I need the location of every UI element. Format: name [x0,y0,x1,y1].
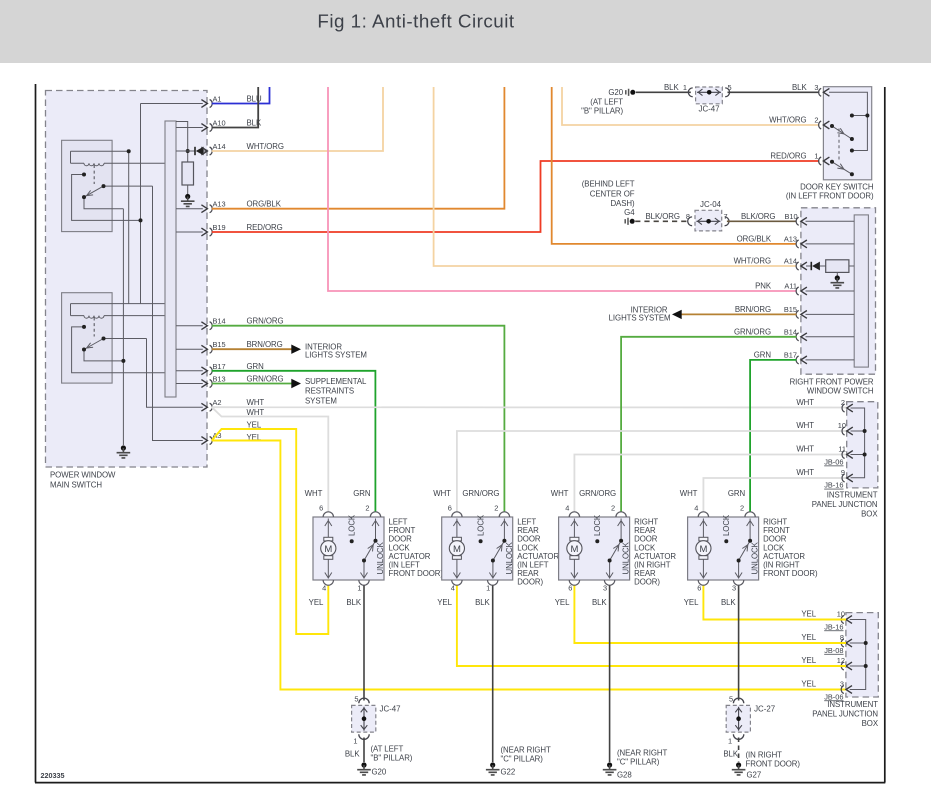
svg-text:4: 4 [565,504,569,513]
actuator 1 lock/unlock switch [348,514,385,578]
wire YEL left rear actuator pin 4 to junction box pin 12 [457,586,846,667]
svg-text:BLK: BLK [792,83,807,92]
power window main switch (dashed box) [46,91,208,490]
wire WHT branch to left front actuator pin 6 [212,407,328,511]
actuator 4 terminal 4 [680,489,709,517]
wire WHT/ORG to door key switch pin 2 [562,87,819,125]
svg-text:1: 1 [814,152,818,161]
wire BRN/ORG right switch B15 to interior lights arrow [682,313,797,315]
terminal B15 [201,340,282,353]
wire B13 GRN/ORG to supplemental restraints arrow [212,383,292,385]
svg-text:GRN: GRN [353,489,371,498]
svg-text:BLK: BLK [475,598,490,607]
svg-text:G28: G28 [617,771,632,780]
relay 2 actuation dashed link [93,318,95,337]
svg-text:6: 6 [568,584,572,593]
wire YEL branch to left front actuator pin 4 [212,429,328,634]
right front door lock actuator [680,489,818,607]
svg-text:4: 4 [694,504,698,513]
svg-text:RED/ORG: RED/ORG [770,152,806,161]
actuator 2 terminal 2 [462,489,509,517]
svg-text:3: 3 [840,680,844,689]
svg-text:FRONT DOOR): FRONT DOOR) [389,569,444,578]
svg-text:BLK: BLK [721,598,736,607]
right switch terminal A14 [734,257,807,270]
svg-text:LOCK: LOCK [722,514,731,536]
wire BLK/ORG JC-04 to right switch B10 [727,220,797,222]
svg-text:BOX: BOX [862,719,879,728]
svg-text:WHT: WHT [305,489,323,498]
junction box 2 terminal 12 [801,656,852,670]
relay 2 switch contacts [72,327,165,373]
svg-text:RESTRAINTS: RESTRAINTS [305,387,354,396]
svg-text:BLK: BLK [664,83,679,92]
svg-text:"C" PILLAR): "C" PILLAR) [501,755,544,764]
svg-text:"B" PILLAR): "B" PILLAR) [371,754,413,763]
svg-text:GRN/ORG: GRN/ORG [247,317,284,326]
right front power window switch (dashed box) [790,208,876,396]
wire B14 GRN/ORG to left rear actuator pin 2 [212,326,505,512]
wire BLK JC-47 to door key switch pin 3 [728,91,820,93]
svg-text:BLK: BLK [345,750,360,759]
right rear door lock actuator [551,489,677,607]
svg-text:WHT: WHT [796,445,814,454]
svg-text:B13: B13 [213,375,226,384]
wire vertical V1 [128,151,130,303]
svg-text:ORG/BLK: ORG/BLK [737,235,772,244]
svg-text:WHT: WHT [796,398,814,407]
wire vertical V5 to internal ground [122,209,124,445]
svg-text:JC-47: JC-47 [380,705,401,714]
terminal B19 [201,223,282,236]
wire BLK/ORG dashed G4 to JC-04 [635,220,690,222]
svg-text:1: 1 [353,737,357,746]
ground G20 at B pillar (top) [581,88,635,116]
terminal A3 [201,431,261,445]
svg-text:LOCK: LOCK [593,514,602,536]
internal wiring verticals of main switch [123,104,202,446]
actuator 2 lock/unlock switch [477,514,514,578]
svg-text:M: M [570,544,578,555]
svg-text:JB-16: JB-16 [824,622,843,631]
svg-text:GRN: GRN [247,362,265,371]
svg-text:YEL: YEL [801,656,816,665]
resistor ground [181,194,195,207]
svg-text:JC-04: JC-04 [700,200,722,209]
door key switch internals [829,92,867,174]
svg-text:(NEAR RIGHT: (NEAR RIGHT [501,746,551,755]
main switch terminal stubs [141,104,207,384]
svg-text:2: 2 [365,504,369,513]
svg-text:B15: B15 [784,305,797,314]
terminal A2 [201,398,264,411]
wire PNK to right switch A11 [328,87,797,291]
svg-text:UNLOCK: UNLOCK [505,541,514,574]
connector JC-27 [726,695,775,746]
svg-text:1: 1 [486,584,490,593]
svg-text:BOX: BOX [861,510,878,519]
actuator 3 terminal 3 [592,580,615,607]
svg-text:5: 5 [728,83,732,92]
svg-text:CENTER OF: CENTER OF [590,189,635,198]
svg-text:GRN: GRN [728,489,746,498]
svg-text:2: 2 [611,504,615,513]
actuator 4 motor M [696,519,711,579]
svg-text:UNLOCK: UNLOCK [376,541,385,574]
relay 1 actuation dashed link [93,165,95,184]
ground G22 [486,746,551,777]
right switch terminal B10 [796,217,807,225]
svg-text:YEL: YEL [801,633,816,642]
actuator 3 terminal 4 [551,489,580,517]
svg-text:2: 2 [814,116,818,125]
actuator 4 terminal 3 [721,580,744,607]
svg-text:JC-47: JC-47 [699,105,720,114]
actuator 2 terminal 6 [433,489,462,517]
diagram frame border [35,84,885,783]
svg-text:GRN/ORG: GRN/ORG [579,489,616,498]
svg-text:DOOR): DOOR) [634,578,660,587]
svg-text:BLK/ORG: BLK/ORG [646,212,680,221]
svg-text:BLK: BLK [346,598,361,607]
svg-text:LIGHTS SYSTEM: LIGHTS SYSTEM [609,314,671,323]
svg-text:RED/ORG: RED/ORG [247,223,283,232]
wire BLK G20 to JC-47 [636,91,691,93]
svg-text:4: 4 [322,584,326,593]
arrow interior lights system right [609,306,682,323]
svg-text:A10: A10 [213,119,226,128]
svg-text:3: 3 [603,584,607,593]
svg-text:1: 1 [357,584,361,593]
svg-text:WINDOW SWITCH: WINDOW SWITCH [807,387,874,396]
right switch terminal A11 [755,282,807,295]
wire A2 WHT to junction box pin 2 [212,406,847,408]
junction box 1 internal bus [851,408,865,478]
svg-text:B17: B17 [213,362,226,371]
svg-text:SUPPLEMENTAL: SUPPLEMENTAL [305,377,367,386]
relay 1 switch contacts [72,175,153,221]
right switch terminal B15 [735,305,807,318]
svg-text:BRN/ORG: BRN/ORG [247,340,283,349]
right switch internal ground [831,275,845,288]
actuator 1 terminal 2 [353,489,380,517]
svg-text:5: 5 [354,695,358,704]
svg-text:WHT: WHT [551,489,569,498]
svg-text:M: M [453,544,461,555]
svg-text:6: 6 [697,584,701,593]
instrument panel junction box 2 (dashed box) [812,613,879,728]
svg-text:G22: G22 [501,768,516,777]
svg-text:(AT LEFT: (AT LEFT [590,98,623,107]
wire A1 BLU [212,87,270,104]
svg-text:UNLOCK: UNLOCK [751,541,760,574]
svg-text:GRN/ORG: GRN/ORG [247,375,284,384]
header title bar [0,0,931,63]
wire vertical V3 to A3 [153,186,203,440]
internal diode at A14 [176,147,204,156]
junction box 1 terminal 2 [796,398,852,412]
junction box 1 terminal 9 [796,468,852,490]
actuator 4 lock/unlock switch [722,514,759,578]
svg-text:WHT: WHT [433,489,451,498]
junction box 2 internal bus [850,620,866,690]
svg-text:10: 10 [837,610,845,619]
terminal B13 [201,375,283,388]
svg-text:B14: B14 [784,328,797,337]
wire GRN right switch B17 to right front actuator pin 2 [750,360,796,512]
svg-text:9: 9 [841,468,845,477]
svg-text:G27: G27 [747,771,762,780]
svg-text:220335: 220335 [41,771,65,780]
svg-text:(NEAR RIGHT: (NEAR RIGHT [617,749,667,758]
right switch internal diode and resistor at A14 [806,260,854,288]
svg-text:BLU: BLU [247,95,262,104]
svg-text:A14: A14 [784,257,797,266]
svg-text:10: 10 [838,421,846,430]
main switch internal ground [117,445,131,458]
svg-text:"C" PILLAR): "C" PILLAR) [617,758,660,767]
svg-text:YEL: YEL [309,598,324,607]
connector JC-47 (top) [683,83,732,114]
svg-text:7: 7 [724,212,728,221]
wire BLK right front actuator pin 3 to JC-27 [738,586,740,701]
svg-text:A2: A2 [213,398,222,407]
svg-text:4: 4 [451,584,455,593]
svg-text:A13: A13 [784,235,797,244]
svg-text:PANEL JUNCTION: PANEL JUNCTION [812,500,878,509]
svg-text:YEL: YEL [437,598,452,607]
actuator 3 motor M [567,519,582,579]
svg-text:6: 6 [319,504,323,513]
svg-text:DOOR): DOOR) [517,578,543,587]
svg-text:(IN RIGHT: (IN RIGHT [746,751,783,760]
svg-text:RIGHT FRONT POWER: RIGHT FRONT POWER [790,378,874,387]
wire A14 WHT/ORG [212,87,383,151]
junction box 1 terminal 10 [796,421,852,435]
actuator 4 terminal 2 [728,489,755,517]
svg-text:BLK: BLK [592,598,607,607]
svg-text:PNK: PNK [755,282,772,291]
wire BLK left front actuator pin 1 to JC-47 [363,586,365,701]
svg-text:WHT: WHT [796,421,814,430]
relay 2 coil [71,304,166,319]
svg-text:DASH): DASH) [610,199,635,208]
wire GRN/ORG right switch B14 to right rear actuator pin 2 [621,337,796,512]
svg-text:BLK: BLK [723,750,738,759]
svg-text:11: 11 [838,445,846,454]
svg-text:B15: B15 [213,340,226,349]
door key switch terminal 3 [814,83,829,96]
svg-text:DOOR KEY SWITCH: DOOR KEY SWITCH [800,183,874,192]
svg-text:A13: A13 [213,200,226,209]
ground G4 behind dash [582,180,635,225]
svg-text:B10: B10 [785,212,798,221]
wire B17 GRN to left front actuator pin 2 [212,371,376,512]
svg-text:A11: A11 [784,282,797,291]
svg-text:"B" PILLAR): "B" PILLAR) [581,107,623,116]
svg-text:WHT: WHT [796,468,814,477]
svg-text:INSTRUMENT: INSTRUMENT [827,491,878,500]
internal bus bar rectangle of main switch [165,121,176,397]
svg-text:6: 6 [448,504,452,513]
svg-text:Fig 1: Anti-theft Circuit: Fig 1: Anti-theft Circuit [317,11,515,32]
svg-text:8: 8 [686,212,690,221]
svg-text:GRN/ORG: GRN/ORG [462,489,499,498]
door key switch terminal 1 [770,152,829,165]
svg-text:2: 2 [494,504,498,513]
svg-text:UNLOCK: UNLOCK [622,541,631,574]
svg-text:B14: B14 [213,317,226,326]
svg-text:JB-08: JB-08 [824,646,843,655]
wire BLK left rear actuator pin 1 to ground G22 [492,586,494,763]
right switch bus bar rectangle [854,215,868,367]
svg-text:1: 1 [728,737,732,746]
right switch terminal B17 [754,351,807,364]
wire YEL right front actuator pin 6 to junction box pin 10 [703,586,846,620]
svg-text:B19: B19 [213,223,226,232]
svg-text:A14: A14 [213,142,226,151]
junction box 2 terminal 3 [801,680,852,702]
terminal A10 [201,119,262,132]
actuator 1 terminal 1 [346,580,369,607]
arrow interior lights system left [291,343,367,360]
instrument panel junction box 1 (dashed box) [812,402,879,519]
actuator 4 terminal 6 [684,580,709,607]
svg-text:G20: G20 [372,768,387,777]
terminal B14 [201,317,283,330]
svg-text:YEL: YEL [801,680,816,689]
svg-text:JC-27: JC-27 [754,705,775,714]
svg-text:B17: B17 [784,351,797,360]
connector JC-04 [686,200,729,231]
svg-text:2: 2 [740,504,744,513]
svg-text:BLK: BLK [247,119,262,128]
terminal A1 [201,95,262,108]
relay switch block 2 inside main switch [62,293,165,383]
wire YEL right rear actuator pin 6 to junction box pin 8 [574,586,846,644]
wire vertical V4 to A2 [147,339,203,408]
ground G27 [732,751,801,780]
svg-text:JB-16: JB-16 [824,481,843,490]
svg-text:M: M [324,544,332,555]
svg-text:PANEL JUNCTION: PANEL JUNCTION [812,710,878,719]
right switch pin stubs [806,221,855,360]
svg-text:WHT/ORG: WHT/ORG [734,257,771,266]
svg-text:GRN: GRN [754,351,772,360]
wire vertical V2 from A1 [140,104,142,304]
svg-text:POWER WINDOW: POWER WINDOW [50,471,116,480]
door key switch box [786,87,874,201]
junction dot V2 relay1 bottom [139,218,143,222]
wire WHT left rear actuator pin 6 to junction box pin 10 [457,431,847,512]
wire WHT right rear actuator pin 4 to junction box pin 11 [574,455,847,512]
ground G28 [603,749,668,780]
svg-text:5: 5 [729,695,733,704]
actuator 1 motor M [321,519,336,579]
svg-text:WHT: WHT [247,408,265,417]
svg-text:GRN/ORG: GRN/ORG [734,328,771,337]
wire B19 RED/ORG to door key switch pin 1 [212,161,820,232]
right switch terminal B14 [734,328,807,341]
junction box 2 terminal 8 [801,633,852,655]
svg-text:G4: G4 [624,208,635,217]
svg-text:YEL: YEL [684,598,699,607]
svg-text:JB-06: JB-06 [824,458,843,467]
relay 1 coil [71,151,166,166]
door key switch terminal 2 [769,116,829,129]
connector JC-47 (bottom vertical) [352,695,401,746]
wire A10 BLK [212,87,258,128]
actuator 1 terminal 6 [305,489,334,517]
actuator 3 terminal 6 [555,580,580,607]
svg-text:SYSTEM: SYSTEM [305,396,337,405]
svg-text:3: 3 [814,83,818,92]
svg-text:LOCK: LOCK [477,514,486,536]
svg-text:M: M [699,544,707,555]
svg-text:8: 8 [840,633,844,642]
svg-text:(IN LEFT FRONT DOOR): (IN LEFT FRONT DOOR) [786,192,874,201]
svg-text:ORG/BLK: ORG/BLK [247,200,282,209]
actuator 1 terminal 4 [309,580,334,607]
svg-text:WHT: WHT [247,398,265,407]
junction dot V5 relay2 [121,359,125,363]
svg-text:FRONT DOOR): FRONT DOOR) [746,760,801,769]
svg-text:FRONT DOOR): FRONT DOOR) [763,569,818,578]
arrow supplemental restraints system [291,377,367,406]
svg-text:12: 12 [837,656,845,665]
svg-text:YEL: YEL [247,420,262,429]
wire WHT right front actuator pin 4 to junction box pin 9 [703,478,847,512]
junction box 1 terminal 11 [796,445,852,467]
svg-text:BLK/ORG: BLK/ORG [741,212,775,221]
actuator 3 lock/unlock switch [593,514,630,578]
terminal A13 [201,200,281,213]
svg-text:YEL: YEL [801,610,816,619]
internal resistor of main switch [176,122,195,207]
svg-text:G20: G20 [608,88,623,97]
ground G20 at B pillar (bottom) [357,745,413,777]
wire BLK right rear actuator pin 3 to ground G28 [609,586,611,763]
svg-text:WHT/ORG: WHT/ORG [247,142,284,151]
svg-text:WHT/ORG: WHT/ORG [769,116,806,125]
actuator 3 terminal 2 [579,489,626,517]
svg-text:JB-06: JB-06 [824,692,843,701]
svg-text:3: 3 [732,584,736,593]
wire BLK dashed JC-27 to ground G27 [738,738,740,763]
svg-text:YEL: YEL [555,598,570,607]
svg-text:LIGHTS SYSTEM: LIGHTS SYSTEM [305,351,367,360]
wire WHT/ORG to right switch A14 [434,87,797,266]
svg-text:2: 2 [841,398,845,407]
svg-text:LOCK: LOCK [348,514,357,536]
relay switch block 1 inside main switch [62,140,165,231]
actuator 2 motor M [449,519,464,579]
svg-text:(BEHIND LEFT: (BEHIND LEFT [582,180,635,189]
svg-text:1: 1 [683,83,687,92]
terminal A14 [201,142,284,155]
svg-text:MAIN SWITCH: MAIN SWITCH [50,481,102,490]
svg-text:WHT: WHT [680,489,698,498]
right switch terminal A13 [737,235,807,248]
actuator 2 terminal 1 [475,580,498,607]
svg-text:(AT LEFT: (AT LEFT [371,745,404,754]
left rear door lock actuator [433,489,559,607]
left front door lock actuator [305,489,444,607]
wire A13 ORG/BLK [212,87,505,209]
svg-text:A1: A1 [213,95,222,104]
wire B15 BRN/ORG to interior lights arrow [212,348,292,350]
wire A3 YEL to junction box pin 3 [212,441,846,690]
